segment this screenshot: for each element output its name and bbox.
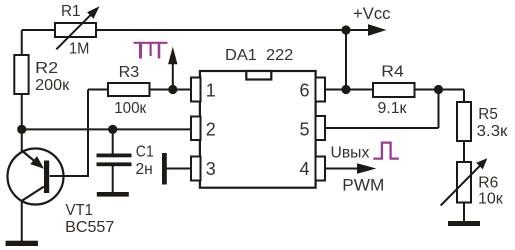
svg-text:3.3к: 3.3к — [477, 123, 509, 140]
svg-text:4: 4 — [300, 159, 310, 179]
svg-text:+Vcc: +Vcc — [353, 5, 391, 23]
svg-text:VT1: VT1 — [66, 202, 94, 219]
wire C1 stem top — [112, 129, 114, 154]
IC DA1 body — [200, 71, 316, 188]
svg-text:C1: C1 — [136, 143, 154, 160]
wire node arrow up line — [172, 62, 174, 90]
svg-text:5: 5 — [300, 120, 310, 140]
node dot pin2 net left — [17, 125, 26, 134]
resistor R2 — [14, 55, 28, 94]
wire Vcc dot riser — [345, 30, 347, 90]
pin stub 5 — [316, 116, 326, 140]
svg-text:R2: R2 — [35, 60, 58, 77]
svg-text:3: 3 — [206, 159, 216, 179]
wire pin5 horizontal — [325, 127, 439, 129]
svg-text:R3: R3 — [119, 64, 140, 81]
svg-text:PWM: PWM — [342, 175, 384, 194]
node dot R4 right — [434, 85, 443, 94]
resistor R4 — [373, 83, 415, 97]
output arrow PWM — [357, 163, 376, 174]
svg-text:DA1 222: DA1 222 — [225, 47, 293, 64]
pin stub 3 — [191, 157, 201, 181]
wire pin5 riser — [438, 90, 440, 129]
wire R3 / pin1 line — [88, 89, 192, 91]
+Vcc arrow — [368, 24, 387, 36]
wire R5-R6 link — [463, 141, 465, 162]
svg-text:6: 6 — [300, 81, 310, 101]
ground under VT1 — [6, 241, 38, 246]
pin stub 1 — [191, 78, 201, 102]
node dot R3/pin1 — [168, 85, 177, 94]
wire pin6 net horizontal — [325, 89, 464, 91]
pin stub 6 — [316, 78, 326, 102]
svg-text:2н: 2н — [136, 161, 153, 178]
wire pin4 output — [325, 168, 358, 170]
resistor R3 — [108, 83, 150, 96]
wire R5 branch down — [463, 90, 465, 103]
sawtooth symbol (magenta) — [134, 43, 168, 59]
pin stub 4 — [316, 157, 326, 181]
svg-text:2: 2 — [206, 120, 216, 140]
svg-text:100к: 100к — [114, 100, 147, 117]
svg-text:R6: R6 — [478, 175, 498, 192]
svg-text:1: 1 — [206, 80, 216, 100]
svg-text:1M: 1M — [69, 40, 89, 57]
wire top rail — [22, 29, 369, 31]
node dot pin6/R4 — [341, 85, 350, 94]
transistor VT1 — [8, 149, 64, 205]
node dot pin2/C1 — [108, 125, 117, 134]
wire R6 to ground — [463, 203, 465, 223]
wire C1 stem bottom — [112, 166, 114, 192]
svg-text:R1: R1 — [61, 3, 81, 20]
wire left vertical — [21, 30, 23, 152]
pulse symbol (magenta) — [373, 143, 399, 159]
svg-text:200к: 200к — [35, 77, 70, 94]
pin stub 2 — [191, 117, 201, 141]
node arrow up (to pin1 node) — [168, 47, 177, 65]
ground under R6 — [448, 221, 480, 226]
wire pin3 terminal link — [166, 168, 192, 170]
resistor R6 (variable) — [441, 158, 488, 205]
svg-text:10к: 10к — [478, 191, 504, 208]
resistor R5 — [457, 102, 471, 141]
resistor R1 — [55, 6, 100, 49]
node dot Vcc — [341, 25, 350, 34]
wire pin2 net horizontal — [22, 128, 192, 130]
wire R3-left drop to base — [50, 90, 88, 177]
capacitor C1 — [97, 154, 132, 167]
svg-text:R4: R4 — [381, 64, 404, 81]
ground under C1 — [97, 192, 129, 197]
svg-text:9.1к: 9.1к — [378, 100, 408, 117]
svg-text:BC557: BC557 — [65, 219, 114, 236]
svg-text:Uвых: Uвых — [331, 144, 370, 161]
pin3 bar terminal — [162, 153, 167, 185]
wire collector down — [21, 201, 23, 242]
svg-text:R5: R5 — [478, 106, 498, 123]
